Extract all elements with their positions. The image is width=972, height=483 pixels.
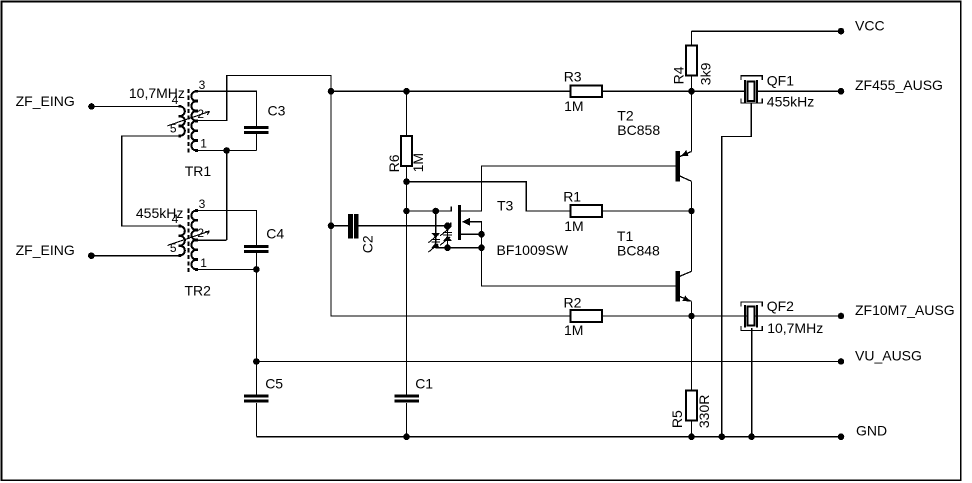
svg-text:2: 2 [197, 226, 204, 240]
svg-text:QF2: QF2 [767, 298, 794, 314]
svg-text:R2: R2 [564, 295, 582, 311]
svg-text:1M: 1M [564, 322, 583, 338]
svg-text:1M: 1M [564, 98, 583, 114]
svg-text:5: 5 [170, 122, 177, 136]
svg-text:R6: R6 [386, 154, 402, 172]
svg-text:1M: 1M [410, 153, 426, 172]
svg-text:1M: 1M [564, 218, 583, 234]
svg-text:TR2: TR2 [185, 283, 212, 299]
svg-text:VU_AUSG: VU_AUSG [855, 347, 922, 363]
svg-text:T1: T1 [617, 228, 634, 244]
svg-text:330R: 330R [696, 395, 712, 428]
svg-text:C1: C1 [415, 376, 433, 392]
svg-text:QF1: QF1 [767, 72, 794, 88]
svg-text:ZF_EING: ZF_EING [16, 93, 75, 109]
svg-text:VCC: VCC [855, 17, 885, 33]
svg-text:BF1009SW: BF1009SW [497, 242, 569, 258]
svg-text:ZF10M7_AUSG: ZF10M7_AUSG [855, 302, 955, 318]
svg-text:C4: C4 [266, 226, 284, 242]
svg-text:C3: C3 [268, 103, 286, 119]
svg-text:GND: GND [856, 423, 887, 439]
svg-text:BC858: BC858 [617, 122, 660, 138]
svg-text:ZF_EING: ZF_EING [16, 242, 75, 258]
svg-text:455kHz: 455kHz [767, 94, 814, 110]
svg-text:C5: C5 [265, 376, 283, 392]
svg-text:4: 4 [172, 93, 179, 107]
svg-text:R3: R3 [564, 69, 582, 85]
svg-text:3k9: 3k9 [698, 62, 714, 85]
svg-text:R5: R5 [669, 410, 685, 428]
svg-text:BC848: BC848 [617, 243, 660, 259]
svg-text:3: 3 [199, 197, 206, 211]
svg-text:1: 1 [200, 137, 207, 151]
svg-text:1: 1 [200, 256, 207, 270]
svg-text:2: 2 [197, 107, 204, 121]
svg-text:C2: C2 [359, 235, 375, 253]
svg-text:4: 4 [172, 212, 179, 226]
svg-text:R1: R1 [563, 189, 581, 205]
svg-text:R4: R4 [670, 66, 686, 84]
svg-text:T3: T3 [497, 197, 514, 213]
svg-text:5: 5 [170, 241, 177, 255]
svg-text:10,7MHz: 10,7MHz [767, 320, 823, 336]
svg-text:3: 3 [199, 78, 206, 92]
svg-text:TR1: TR1 [185, 163, 212, 179]
svg-text:ZF455_AUSG: ZF455_AUSG [855, 77, 943, 93]
